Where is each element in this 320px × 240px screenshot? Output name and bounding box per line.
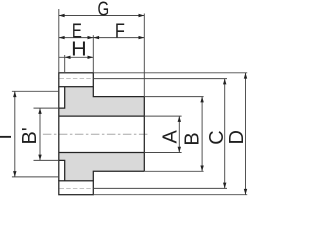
- svg-text:C: C: [206, 130, 228, 144]
- svg-text:B: B: [181, 132, 203, 145]
- svg-text:B': B': [19, 127, 41, 144]
- svg-text:I: I: [0, 134, 16, 140]
- svg-text:D: D: [226, 130, 248, 144]
- svg-text:A: A: [160, 129, 182, 143]
- svg-text:G: G: [97, 0, 109, 20]
- svg-text:H: H: [71, 38, 87, 60]
- svg-text:F: F: [115, 19, 125, 42]
